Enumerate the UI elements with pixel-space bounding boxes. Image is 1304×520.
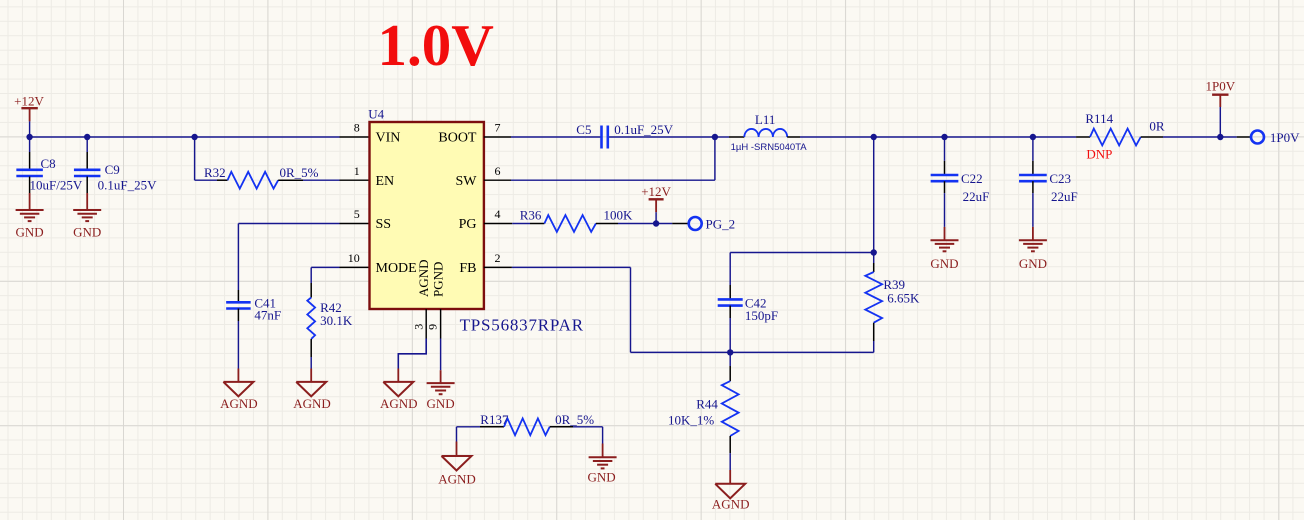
- svg-text:R114: R114: [1085, 111, 1113, 126]
- svg-text:DNP: DNP: [1086, 146, 1112, 161]
- svg-text:GND: GND: [73, 225, 101, 240]
- svg-text:C22: C22: [961, 171, 983, 186]
- svg-text:C9: C9: [105, 162, 120, 177]
- svg-text:AGND: AGND: [712, 497, 750, 512]
- svg-text:R44: R44: [696, 397, 718, 412]
- svg-text:C23: C23: [1049, 171, 1071, 186]
- svg-text:5: 5: [354, 207, 360, 221]
- svg-text:10K_1%: 10K_1%: [668, 413, 714, 428]
- svg-text:4: 4: [495, 207, 501, 221]
- svg-text:GND: GND: [427, 396, 455, 411]
- svg-text:30.1K: 30.1K: [320, 313, 353, 328]
- svg-text:PG_2: PG_2: [706, 216, 736, 231]
- svg-text:EN: EN: [376, 174, 395, 189]
- svg-text:SS: SS: [376, 217, 392, 232]
- svg-text:L11: L11: [755, 112, 775, 127]
- svg-text:U4: U4: [368, 107, 384, 122]
- svg-text:0.1uF_25V: 0.1uF_25V: [98, 178, 157, 193]
- svg-text:22uF: 22uF: [1051, 189, 1078, 204]
- svg-text:1P0V: 1P0V: [1205, 78, 1235, 93]
- svg-text:1: 1: [354, 164, 360, 178]
- svg-text:AGND: AGND: [416, 259, 431, 297]
- svg-text:7: 7: [495, 121, 501, 135]
- svg-text:8: 8: [354, 121, 360, 135]
- svg-text:GND: GND: [1019, 256, 1047, 271]
- svg-text:1.0V: 1.0V: [378, 12, 494, 78]
- svg-text:PGND: PGND: [431, 262, 446, 297]
- svg-text:150pF: 150pF: [745, 308, 778, 323]
- svg-text:0R_5%: 0R_5%: [555, 412, 594, 427]
- svg-text:AGND: AGND: [380, 396, 418, 411]
- svg-text:9: 9: [426, 324, 440, 330]
- svg-text:+12V: +12V: [641, 184, 671, 199]
- svg-text:R137: R137: [480, 412, 509, 427]
- svg-text:0R: 0R: [1149, 119, 1165, 134]
- svg-text:R36: R36: [520, 208, 542, 223]
- svg-text:FB: FB: [459, 261, 476, 276]
- svg-text:C8: C8: [41, 156, 56, 171]
- svg-text:+12V: +12V: [14, 94, 44, 109]
- svg-text:SW: SW: [456, 174, 478, 189]
- svg-text:GND: GND: [930, 256, 958, 271]
- svg-text:6: 6: [495, 164, 501, 178]
- svg-text:TPS56837RPAR: TPS56837RPAR: [460, 315, 584, 334]
- svg-text:C5: C5: [576, 122, 591, 137]
- svg-text:3: 3: [411, 324, 425, 330]
- svg-text:AGND: AGND: [293, 396, 331, 411]
- svg-text:0R_5%: 0R_5%: [280, 165, 319, 180]
- svg-text:AGND: AGND: [220, 396, 258, 411]
- svg-text:MODE: MODE: [376, 261, 417, 276]
- svg-text:R32: R32: [204, 165, 226, 180]
- svg-text:GND: GND: [588, 470, 616, 485]
- svg-text:PG: PG: [459, 217, 477, 232]
- svg-text:22uF: 22uF: [963, 189, 990, 204]
- svg-text:GND: GND: [16, 225, 44, 240]
- svg-text:10uF/25V: 10uF/25V: [30, 178, 83, 193]
- svg-text:0.1uF_25V: 0.1uF_25V: [614, 122, 673, 137]
- svg-text:BOOT: BOOT: [438, 131, 477, 146]
- svg-text:47nF: 47nF: [254, 307, 281, 322]
- svg-text:6.65K: 6.65K: [887, 291, 920, 306]
- svg-text:AGND: AGND: [438, 471, 476, 486]
- svg-text:100K: 100K: [604, 208, 634, 223]
- svg-text:2: 2: [495, 251, 501, 265]
- svg-text:1µH -SRN5040TA: 1µH -SRN5040TA: [731, 142, 808, 153]
- svg-text:VIN: VIN: [376, 131, 401, 146]
- svg-text:10: 10: [348, 251, 360, 265]
- svg-text:1P0V: 1P0V: [1270, 130, 1300, 145]
